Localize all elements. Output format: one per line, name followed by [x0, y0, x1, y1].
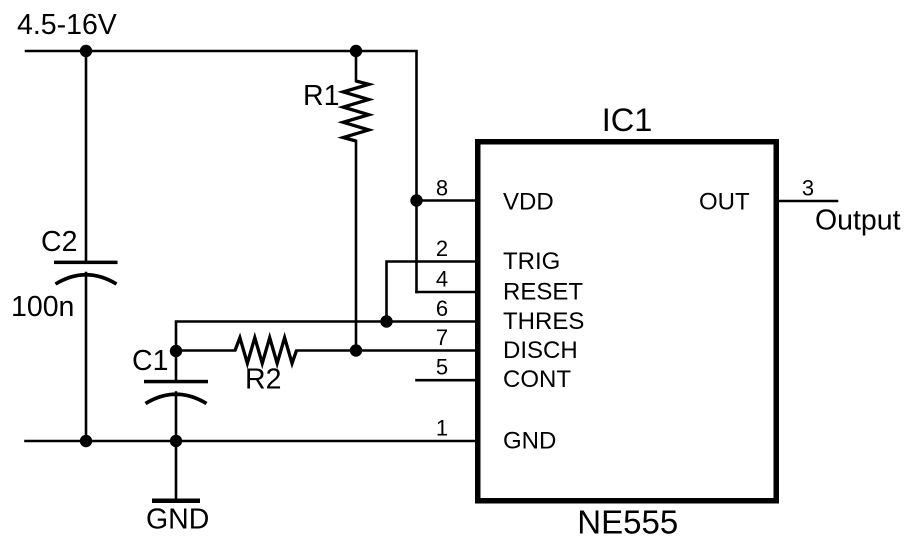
node F : junction dot R1/DISCH: [350, 344, 362, 356]
svg-text:Output: Output: [815, 205, 901, 237]
wire pin3 output stub: [776, 200, 837, 203]
svg-text:8: 8: [436, 176, 448, 201]
wire top supply rail: [26, 51, 417, 201]
wire R1 bottom lead: [355, 141, 358, 351]
resistor R2: [235, 338, 297, 364]
capacitor C1: [144, 380, 208, 404]
node A : junction dot C2/top rail: [80, 45, 92, 57]
svg-text:2: 2: [436, 236, 448, 261]
svg-text:6: 6: [436, 296, 448, 321]
wire DISCH segment C1 node to R2: [176, 349, 235, 352]
resistor R1: [343, 81, 369, 141]
svg-text:RESET: RESET: [503, 279, 583, 306]
node H : junction dot C1 bottom rail: [170, 435, 182, 447]
wire C2 top lead: [85, 51, 88, 261]
node B : junction dot R1/top rail: [350, 45, 362, 57]
wire bottom ground rail pin1: [26, 440, 479, 443]
svg-text:C2: C2: [41, 226, 77, 258]
svg-text:4.5-16V: 4.5-16V: [17, 9, 117, 41]
wire pin8 stub: [417, 199, 479, 202]
wire C1 bottom lead: [175, 393, 178, 442]
wire TRIG pin2 stub with vertical to THRES node: [387, 262, 479, 322]
wire C2 bottom lead: [85, 273, 88, 441]
capacitor C2: [54, 261, 118, 284]
svg-text:IC1: IC1: [602, 102, 653, 138]
node D : junction dot TRIG/THRES: [380, 315, 392, 327]
svg-text:1: 1: [436, 416, 448, 441]
svg-text:GND: GND: [503, 428, 556, 455]
svg-text:VDD: VDD: [503, 189, 554, 216]
svg-text:NE555: NE555: [577, 504, 678, 541]
node G : junction dot C2 bottom rail: [80, 435, 92, 447]
wire THRES pin6 line: [176, 322, 478, 352]
svg-text:7: 7: [436, 325, 448, 350]
wire DISCH pin7 segment right of R2: [297, 349, 479, 352]
svg-text:CONT: CONT: [503, 366, 571, 393]
svg-text:C1: C1: [132, 345, 168, 377]
svg-text:R2: R2: [245, 364, 281, 396]
wire CONT pin5 stub: [417, 379, 479, 382]
svg-text:4: 4: [436, 267, 448, 292]
svg-text:3: 3: [802, 176, 814, 201]
svg-text:THRES: THRES: [503, 308, 584, 335]
node C : junction dot pin8: [410, 194, 422, 206]
ground: [152, 499, 200, 504]
wire RESET vertical from pin8 node: [415, 201, 418, 293]
svg-text:5: 5: [436, 355, 448, 380]
wire R1 top lead: [355, 51, 358, 81]
svg-text:100n: 100n: [11, 291, 74, 323]
svg-text:GND: GND: [146, 504, 209, 536]
node E : junction dot C1 top: [170, 345, 182, 357]
svg-text:R1: R1: [303, 80, 339, 112]
wire C1 top lead: [175, 351, 178, 380]
op-amp U1 : IC body NE555: [478, 142, 777, 501]
svg-text:DISCH: DISCH: [503, 337, 578, 364]
svg-text:OUT: OUT: [699, 189, 750, 216]
wire ground stub below rail: [175, 441, 178, 499]
wire RESET pin4 stub: [417, 291, 479, 294]
svg-text:TRIG: TRIG: [503, 248, 560, 275]
